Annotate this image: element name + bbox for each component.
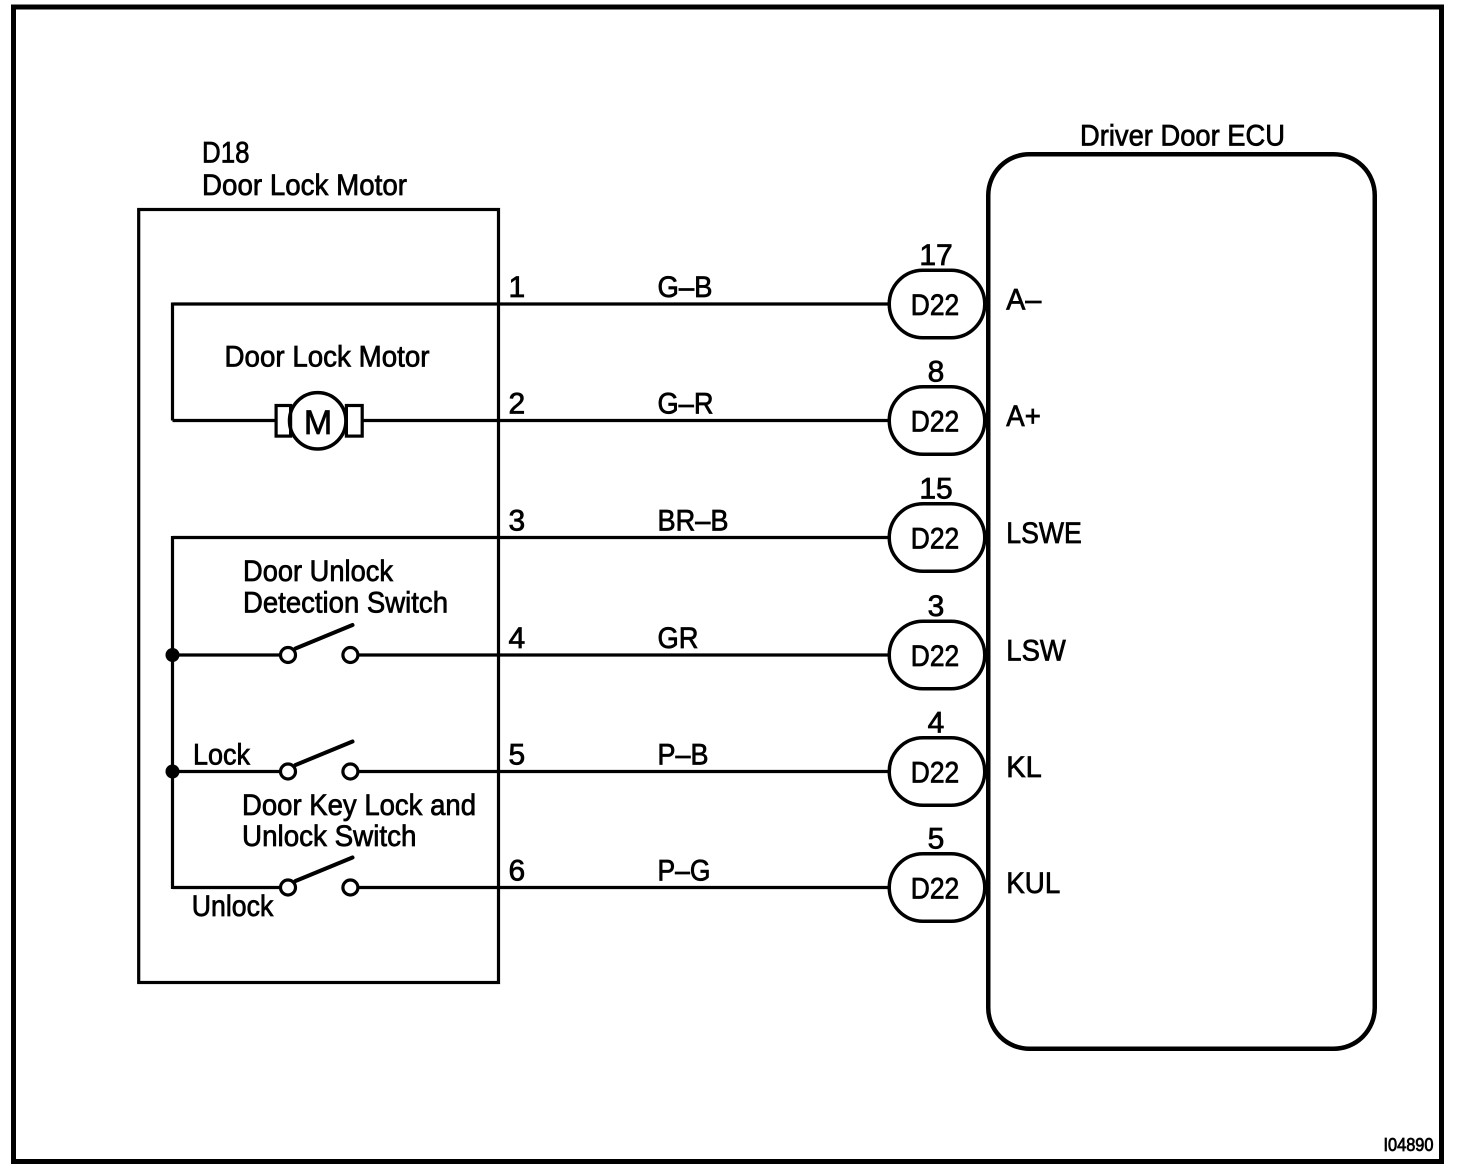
wire 5 left segment bbox=[173, 770, 282, 773]
wire switch-loop vertical bbox=[171, 536, 174, 889]
svg-text:8: 8 bbox=[928, 356, 945, 389]
connector D22 pin 8 bbox=[889, 356, 985, 455]
svg-text:A+: A+ bbox=[1006, 400, 1041, 433]
connector D22 pin 3 bbox=[889, 590, 985, 689]
svg-text:2: 2 bbox=[509, 388, 526, 421]
svg-text:15: 15 bbox=[919, 473, 952, 506]
svg-text:I04890: I04890 bbox=[1384, 1135, 1434, 1155]
junction dot wire 5 bbox=[166, 765, 180, 779]
svg-text:17: 17 bbox=[919, 239, 952, 272]
svg-text:P–B: P–B bbox=[658, 739, 709, 772]
wire 4 left segment bbox=[173, 653, 282, 656]
svg-text:D18: D18 bbox=[202, 137, 250, 170]
svg-text:Detection Switch: Detection Switch bbox=[243, 586, 448, 619]
motor M1 right brush bracket bbox=[346, 406, 362, 437]
wire 3 (pin 3 to D22-15) bbox=[173, 536, 890, 539]
wire 4 right segment (pin 4 to D22-3) bbox=[358, 653, 890, 656]
svg-text:D22: D22 bbox=[911, 406, 960, 439]
motor M1 left brush bracket bbox=[276, 406, 291, 437]
svg-text:GR: GR bbox=[658, 622, 699, 655]
wire 2 right segment (pin 2 to D22-8) bbox=[361, 419, 889, 422]
svg-text:D22: D22 bbox=[911, 873, 960, 906]
svg-text:M: M bbox=[304, 404, 332, 442]
svg-text:4: 4 bbox=[509, 622, 526, 655]
svg-text:Lock: Lock bbox=[193, 739, 251, 772]
svg-text:5: 5 bbox=[928, 823, 945, 856]
svg-text:P–G: P–G bbox=[658, 855, 711, 888]
svg-text:Door Unlock: Door Unlock bbox=[243, 555, 394, 588]
wire 6 right segment (pin 6 to D22-5) bbox=[358, 886, 890, 889]
svg-text:G–R: G–R bbox=[658, 388, 714, 421]
svg-text:6: 6 bbox=[509, 855, 526, 888]
svg-text:Door Key Lock and: Door Key Lock and bbox=[242, 789, 476, 822]
svg-text:D22: D22 bbox=[911, 289, 960, 322]
ECU box bbox=[988, 154, 1375, 1049]
svg-text:4: 4 bbox=[928, 707, 945, 740]
svg-text:Unlock: Unlock bbox=[192, 890, 274, 923]
connector D18 box bbox=[139, 210, 499, 983]
svg-text:D22: D22 bbox=[911, 523, 960, 556]
svg-text:5: 5 bbox=[509, 739, 526, 772]
wire 6 left segment bbox=[173, 886, 282, 889]
svg-text:LSWE: LSWE bbox=[1006, 517, 1082, 550]
connector D22 pin 5 bbox=[889, 823, 985, 922]
svg-text:KL: KL bbox=[1006, 751, 1042, 784]
junction dot wire 4 bbox=[166, 648, 180, 662]
switch S2 (key lock) bbox=[281, 764, 296, 779]
wire 5 right segment (pin 5 to D22-4) bbox=[358, 770, 890, 773]
svg-text:1: 1 bbox=[509, 271, 526, 304]
wire 2 left segment bbox=[173, 419, 278, 422]
svg-text:G–B: G–B bbox=[658, 271, 713, 304]
svg-text:Door Lock Motor: Door Lock Motor bbox=[225, 341, 430, 374]
motor M1 body bbox=[290, 393, 346, 449]
wire 1 (pin 1 to D22-17) bbox=[173, 302, 890, 305]
svg-text:BR–B: BR–B bbox=[658, 505, 729, 538]
svg-text:D22: D22 bbox=[911, 757, 960, 790]
svg-text:KUL: KUL bbox=[1006, 867, 1060, 900]
svg-text:Unlock Switch: Unlock Switch bbox=[242, 820, 417, 853]
connector D22 pin 15 bbox=[889, 473, 985, 572]
svg-text:D22: D22 bbox=[911, 640, 960, 673]
svg-text:A–: A– bbox=[1006, 284, 1041, 317]
svg-text:Driver Door ECU: Driver Door ECU bbox=[1080, 120, 1285, 153]
svg-text:3: 3 bbox=[928, 590, 945, 623]
connector D22 pin 4 bbox=[889, 707, 985, 806]
wire motor-loop vertical bbox=[171, 303, 174, 421]
svg-text:3: 3 bbox=[509, 505, 526, 538]
switch S3 (key unlock) bbox=[281, 880, 296, 895]
connector D22 pin 17 bbox=[889, 239, 985, 338]
svg-text:Door Lock Motor: Door Lock Motor bbox=[202, 169, 407, 202]
svg-text:LSW: LSW bbox=[1006, 635, 1066, 668]
switch S1 (door unlock detection) bbox=[281, 648, 296, 663]
